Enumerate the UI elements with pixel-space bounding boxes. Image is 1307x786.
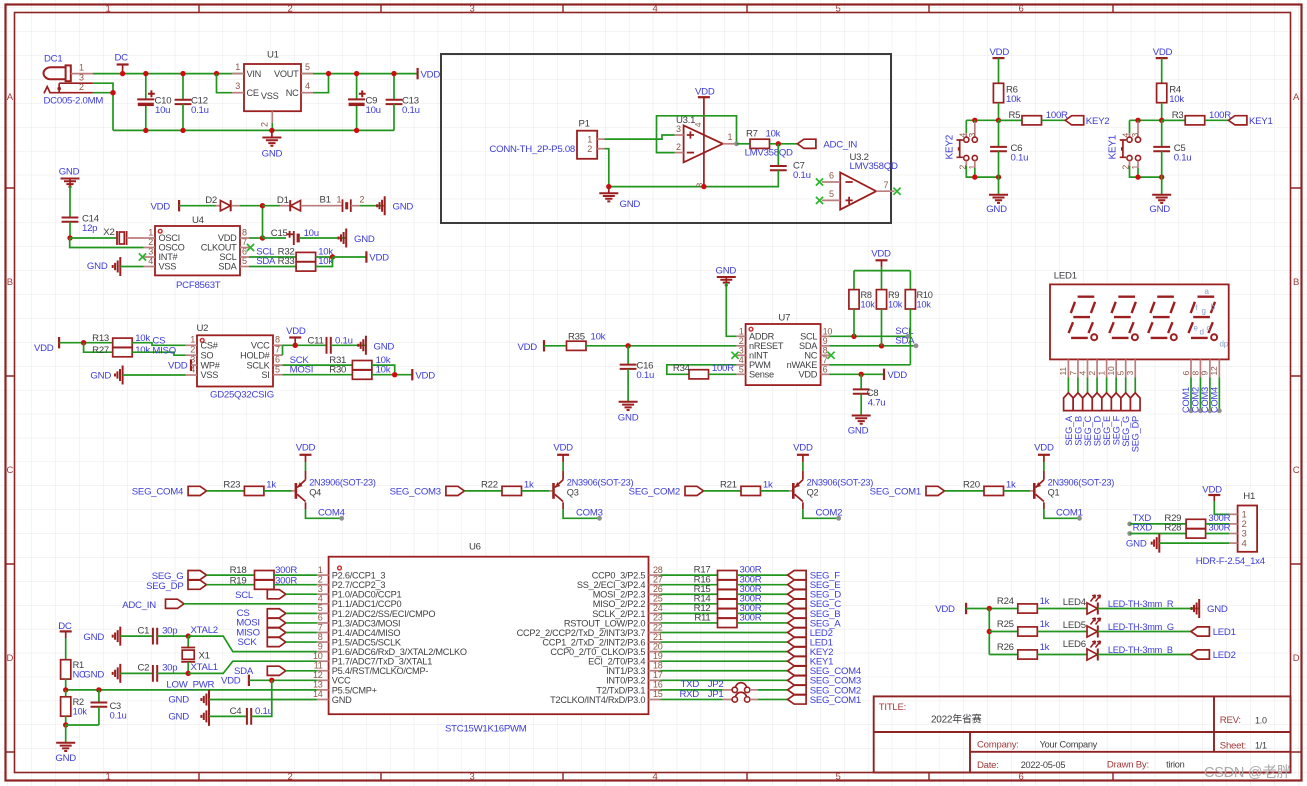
svg-text:1: 1: [79, 63, 84, 73]
resistor R14: [660, 603, 717, 605]
wire JP2 to flag: [750, 689, 758, 691]
svg-text:KEY1: KEY1: [1108, 134, 1119, 159]
svg-text:10k: 10k: [591, 332, 606, 343]
svg-text:Sense: Sense: [749, 370, 774, 380]
capacitor C12: [182, 74, 184, 100]
wire pin18 to flag: [660, 670, 787, 672]
power flag VDD: [417, 68, 419, 79]
U6 pin 27 SS_2/ECI_3/P2.4: [649, 584, 661, 586]
resistor R16: [660, 584, 717, 586]
svg-text:tirion: tirion: [1166, 760, 1185, 770]
svg-text:R1: R1: [73, 660, 84, 670]
svg-text:CCP0_3/P2.5: CCP0_3/P2.5: [592, 571, 646, 581]
svg-text:GND: GND: [374, 341, 395, 352]
svg-text:C1: C1: [138, 625, 150, 636]
wire XTAL2 to pin9: [188, 636, 317, 652]
U6 pin 10 P1.7/ADC7/TxD_3/XTAL1: [317, 660, 329, 662]
svg-text:MISO: MISO: [152, 345, 176, 356]
resistor R3: [1162, 119, 1186, 121]
LED1 pin 9 / net COM3: [1209, 359, 1211, 377]
svg-text:7: 7: [823, 355, 828, 365]
wire ground rail: [113, 129, 394, 131]
svg-text:VOUT: VOUT: [274, 69, 299, 79]
U3.1 pin 2: [675, 152, 684, 154]
wire R10 to nWAKE: [909, 309, 911, 365]
svg-text:C15: C15: [271, 228, 288, 239]
svg-text:300R: 300R: [1208, 523, 1230, 534]
svg-text:6: 6: [318, 613, 323, 623]
LED1 pin 1 / flag SEG_E: [1106, 359, 1108, 377]
svg-text:XTAL1: XTAL1: [191, 662, 218, 673]
svg-text:VDD: VDD: [286, 326, 306, 337]
svg-text:R11: R11: [694, 613, 710, 624]
svg-text:1k: 1k: [1006, 480, 1016, 491]
wire R25 to LED5: [1037, 631, 1087, 633]
wire R7 to node: [770, 143, 798, 145]
resistor R30: [352, 370, 372, 379]
svg-text:5: 5: [739, 364, 744, 374]
transistor Q1: [1033, 483, 1036, 499]
resistor R31: [352, 361, 372, 370]
wire flag to R20: [945, 490, 985, 492]
svg-text:INT0/P3.2: INT0/P3.2: [606, 676, 645, 686]
svg-text:2N3906(SOT-23): 2N3906(SOT-23): [309, 477, 376, 487]
LED1 pin 3 / flag SEG_DP: [1134, 359, 1136, 377]
svg-text:VDD: VDD: [1153, 47, 1173, 58]
LED1 pin 7 / flag SEG_B: [1077, 359, 1079, 377]
wire pullup top rail: [881, 267, 883, 290]
IC U7: [746, 324, 821, 385]
svg-text:WP#: WP#: [201, 360, 221, 370]
svg-text:0.1u: 0.1u: [793, 170, 811, 181]
svg-text:P1.2/ADC2/SS/ECI/CMPO: P1.2/ADC2/SS/ECI/CMPO: [332, 609, 436, 619]
wire to R7: [737, 143, 751, 145]
wire Q3 collector to COM3: [562, 502, 564, 509]
U3.2 pin 5: [822, 199, 840, 201]
svg-text:VDD: VDD: [34, 343, 54, 354]
svg-text:21: 21: [653, 632, 663, 642]
svg-text:C3: C3: [110, 701, 121, 711]
wire VIN rail: [93, 73, 418, 75]
svg-text:10k: 10k: [917, 300, 932, 310]
svg-text:8: 8: [823, 345, 828, 355]
wire C1 to XTAL2 node: [157, 635, 188, 637]
svg-text:16: 16: [653, 680, 663, 690]
U4 pin CLKOUT no-connect: [240, 247, 249, 249]
svg-text:1k: 1k: [1040, 596, 1050, 607]
junction: [606, 184, 611, 189]
svg-text:DC005-2.0MM: DC005-2.0MM: [44, 96, 104, 107]
diode D2: [216, 205, 220, 207]
svg-text:GND: GND: [87, 261, 108, 272]
svg-text:7: 7: [1068, 371, 1078, 376]
resistor R26: [1018, 650, 1038, 659]
svg-text:5: 5: [1116, 371, 1126, 376]
power flag VDD U7: [883, 369, 885, 380]
resistor R10: [905, 290, 915, 309]
wire R26 to LED6: [1037, 654, 1087, 656]
svg-text:23: 23: [653, 613, 663, 623]
svg-text:INT#: INT#: [159, 252, 179, 262]
svg-text:SDA: SDA: [799, 341, 818, 351]
wire R22 to Q3: [522, 490, 550, 492]
resistor R25: [1018, 627, 1038, 636]
svg-text:U6: U6: [469, 542, 481, 553]
svg-text:P1.6/ADC6/RxD_3/XTAL2/MCLKO: P1.6/ADC6/RxD_3/XTAL2/MCLKO: [332, 647, 467, 657]
U6 pin 9 P1.6/ADC6/RxD_3/XTAL2/MCLKO: [317, 651, 329, 653]
svg-text:VDD: VDD: [168, 360, 188, 371]
svg-text:2: 2: [287, 772, 292, 783]
svg-text:1.0: 1.0: [1255, 715, 1267, 725]
svg-text:CCP0_2/T0_CLKO/P3.5: CCP0_2/T0_CLKO/P3.5: [550, 647, 645, 657]
svg-text:8: 8: [275, 335, 280, 345]
LED1 pin 11 / flag SEG_A: [1067, 359, 1069, 377]
svg-text:0.1u: 0.1u: [1011, 152, 1029, 163]
svg-text:R35: R35: [568, 332, 585, 343]
svg-text:VDD: VDD: [871, 249, 891, 260]
svg-text:dp: dp: [1220, 340, 1229, 349]
U6 pin 21 CCP1_2/TxD_2/INT2/P3.6: [649, 641, 661, 643]
svg-text:2: 2: [79, 82, 84, 92]
wire R5 to flag: [1042, 119, 1066, 121]
wire C15 to ground: [300, 237, 346, 239]
LED1 pin 10 / flag SEG_F: [1115, 359, 1117, 377]
svg-text:GD25Q32CSIG: GD25Q32CSIG: [210, 390, 274, 401]
wire pin16 to jumper JP2: [660, 689, 722, 691]
resistor R23: [244, 486, 264, 495]
transistor Q2: [792, 483, 795, 499]
svg-text:20: 20: [653, 641, 663, 651]
svg-text:VDD: VDD: [799, 370, 818, 380]
U7 pin VDD wire: [821, 373, 830, 375]
7-seg digit 2: [1109, 297, 1138, 341]
U6 pin 22 CCP2_2/CCP2/TxD_2/INT3/P3.7: [649, 631, 661, 633]
svg-text:2: 2: [360, 195, 365, 205]
svg-text:6: 6: [1018, 4, 1023, 15]
svg-text:LED5: LED5: [1063, 620, 1086, 631]
svg-text:P2.6/CCP1_3: P2.6/CCP1_3: [332, 571, 386, 581]
crystal X2: [117, 231, 127, 245]
wire R28 to pin3: [1206, 533, 1229, 535]
svg-text:3: 3: [739, 345, 744, 355]
DC1 pin 3: [59, 82, 93, 84]
wire R35 to nRESET: [586, 345, 736, 347]
svg-text:1: 1: [105, 4, 110, 15]
wire R1 to node: [65, 679, 67, 690]
wire pin19 to flag: [660, 660, 787, 662]
net flag KEY2: [1065, 116, 1084, 125]
svg-text:COM2: COM2: [816, 507, 843, 518]
pushbutton KEY2 bottom wires: [965, 161, 967, 166]
svg-text:VDD: VDD: [793, 443, 813, 454]
svg-text:1: 1: [587, 134, 592, 144]
net flag LED1: [788, 637, 807, 646]
svg-text:VCC: VCC: [251, 341, 270, 351]
svg-text:CONN-TH_2P-P5.08: CONN-TH_2P-P5.08: [489, 144, 575, 155]
capacitor C15: [263, 237, 287, 239]
svg-text:B: B: [1293, 277, 1299, 288]
pushbutton KEY2: [965, 120, 967, 133]
svg-text:VDD: VDD: [1202, 485, 1222, 496]
resistor R2: [65, 690, 67, 697]
wire feedback loop: [657, 116, 737, 153]
wire R23 to Q4: [264, 490, 292, 492]
wire pin20 to flag: [660, 651, 787, 653]
capacitor C16: [627, 346, 629, 365]
net flag SEG_B: [788, 609, 807, 618]
svg-text:SDA: SDA: [895, 336, 915, 347]
U6 pin 8 P1.5/ADC5/SCLK: [317, 641, 329, 643]
svg-text:SCL: SCL: [800, 332, 817, 342]
svg-text:Sheet:: Sheet:: [1220, 740, 1246, 751]
wire D2 to node: [232, 205, 241, 207]
svg-text:LED6: LED6: [1063, 639, 1086, 650]
svg-text:LED-TH-3mm_R: LED-TH-3mm_R: [1108, 599, 1174, 609]
resistor R34: [689, 370, 709, 379]
svg-text:10k: 10k: [1169, 94, 1184, 105]
svg-text:VDD: VDD: [553, 443, 573, 454]
svg-text:1: 1: [105, 772, 110, 783]
U4 pin OSCI: [144, 237, 156, 239]
svg-text:22: 22: [653, 622, 663, 632]
svg-text:R18: R18: [230, 565, 247, 576]
svg-text:GND: GND: [620, 199, 641, 210]
capacitor C5: [1161, 120, 1163, 147]
svg-text:4: 4: [958, 133, 968, 138]
net flag SEG_COM3: [788, 676, 807, 685]
svg-text:COM3: COM3: [576, 507, 603, 518]
svg-text:PWM: PWM: [749, 360, 771, 370]
svg-text:3: 3: [469, 4, 474, 15]
P1 pin1 wire: [597, 138, 604, 140]
svg-text:10k: 10k: [888, 300, 903, 310]
svg-text:2: 2: [739, 336, 744, 346]
svg-text:COM4: COM4: [318, 507, 346, 518]
svg-text:6: 6: [829, 171, 834, 181]
svg-text:U2: U2: [197, 323, 209, 334]
svg-text:P1.5/ADC5/SCLK: P1.5/ADC5/SCLK: [332, 637, 402, 647]
svg-text:R5: R5: [1009, 110, 1021, 121]
svg-text:NC: NC: [286, 88, 299, 98]
ground GND B1: [377, 196, 385, 215]
svg-text:VSS: VSS: [261, 91, 279, 101]
svg-text:LED2: LED2: [1213, 650, 1236, 661]
svg-text:P1.4/ADC4/MISO: P1.4/ADC4/MISO: [332, 628, 401, 638]
LED1 pin 5 / flag SEG_G: [1125, 359, 1127, 377]
U6 pin 18 INT1/P3.3: [649, 670, 661, 672]
net flag KEY2: [788, 647, 807, 656]
svg-text:GND: GND: [262, 149, 283, 160]
svg-text:CCP2_2/CCP2/TxD_2/INT3/P3.7: CCP2_2/CCP2/TxD_2/INT3/P3.7: [517, 628, 646, 638]
U3.1 output pin 1: [723, 143, 737, 145]
svg-text:MISO_2/P2.2: MISO_2/P2.2: [593, 599, 646, 609]
svg-text:KEY2: KEY2: [1086, 116, 1110, 127]
frame column numbers: [105, 4, 1023, 783]
svg-text:10: 10: [1106, 366, 1116, 375]
svg-text:SCLK: SCLK: [246, 360, 270, 370]
U1 pin VSS: [271, 111, 273, 123]
svg-text:GND: GND: [168, 712, 189, 723]
svg-text:R33: R33: [278, 256, 295, 267]
DC1 pin 1: [71, 73, 93, 75]
svg-text:2: 2: [587, 144, 592, 154]
power flag VDD diodes: [178, 200, 180, 211]
svg-text:8: 8: [242, 227, 247, 237]
wire flag to R23: [207, 490, 245, 492]
svg-text:R9: R9: [888, 290, 899, 300]
ground GND R2: [65, 725, 67, 743]
svg-text:4: 4: [1242, 538, 1247, 549]
svg-text:B: B: [7, 277, 13, 288]
svg-text:7: 7: [318, 622, 323, 632]
svg-text:R24: R24: [997, 596, 1015, 607]
ground GND C5: [1161, 177, 1163, 195]
capacitor C13: [393, 74, 395, 100]
resistor R15: [660, 593, 717, 595]
svg-text:6: 6: [823, 364, 828, 374]
svg-text:SDA: SDA: [218, 262, 237, 272]
svg-text:LED-TH-3mm_G: LED-TH-3mm_G: [1108, 622, 1174, 632]
svg-text:XTAL2: XTAL2: [191, 625, 218, 636]
svg-text:300R: 300R: [740, 613, 762, 624]
resistor R12: [660, 612, 717, 614]
svg-text:ADDR: ADDR: [749, 332, 775, 342]
svg-text:GND: GND: [716, 266, 737, 277]
svg-text:19: 19: [653, 651, 663, 661]
svg-text:30p: 30p: [162, 663, 177, 674]
wire R8 to SCL: [853, 309, 855, 336]
wire R20 to Q1: [1004, 490, 1031, 492]
svg-text:18: 18: [653, 661, 663, 671]
svg-text:10k: 10k: [861, 300, 876, 310]
pushbutton KEY1: [1129, 120, 1131, 133]
U1 pin NC wire: [301, 92, 313, 94]
svg-text:VDD: VDD: [990, 47, 1010, 58]
resistor R29: [1186, 519, 1206, 528]
svg-text:9: 9: [823, 336, 828, 346]
U4 pin VDD wire: [240, 237, 249, 239]
power flag VDD R4: [1156, 57, 1168, 59]
svg-text:nWAKE: nWAKE: [787, 360, 818, 370]
U6 pin 28 CCP0_3/P2.5: [649, 574, 661, 576]
svg-text:GND: GND: [168, 695, 189, 706]
LED1 pin 12 / net COM4: [1218, 359, 1220, 377]
svg-text:GND: GND: [55, 753, 76, 764]
svg-text:OSCO: OSCO: [159, 243, 185, 253]
svg-text:3: 3: [318, 584, 323, 594]
ground GND U1: [271, 130, 273, 137]
U2 pin SI to R30: [273, 374, 283, 376]
svg-text:C: C: [6, 465, 13, 476]
svg-text:GND: GND: [986, 204, 1007, 215]
pushbutton KEY1 bottom wires: [1129, 161, 1131, 166]
U6 pin 23 RSTOUT_LOW/P2.0: [649, 622, 661, 624]
svg-text:R34: R34: [673, 363, 691, 374]
svg-text:SEG_DP: SEG_DP: [1131, 416, 1141, 452]
svg-text:STC15W1K16PWM: STC15W1K16PWM: [445, 724, 527, 735]
svg-text:X2: X2: [103, 227, 114, 238]
svg-text:3: 3: [469, 772, 474, 783]
U6 pin 12 VCC: [317, 679, 329, 681]
ground GND C15: [339, 229, 347, 248]
svg-text:B1: B1: [320, 195, 331, 206]
svg-text:GND: GND: [848, 426, 869, 437]
svg-text:P1.1/ADC1/CCP0: P1.1/ADC1/CCP0: [332, 599, 402, 609]
power flag VDD U3.1: [698, 96, 710, 98]
svg-text:100R: 100R: [712, 363, 734, 374]
svg-text:11: 11: [1058, 367, 1068, 376]
U6 pin 3 P1.0/ADC0/CCP1: [317, 593, 329, 595]
svg-text:100R: 100R: [1046, 110, 1068, 121]
battery B1: [301, 205, 343, 207]
wire LED4 to ground: [1098, 608, 1199, 610]
U7 pin SCL wire: [821, 335, 830, 337]
svg-text:1k: 1k: [763, 480, 773, 491]
U6 pin 16 T2/TxD/P3.1: [649, 689, 661, 691]
svg-text:0.1u: 0.1u: [1174, 152, 1192, 163]
net flag SEG_COM2: [788, 685, 807, 694]
svg-text:LED4: LED4: [1063, 597, 1087, 608]
segment letter labels: [1194, 287, 1229, 349]
wire VDD to pin1: [1214, 501, 1229, 514]
svg-text:Q2: Q2: [807, 487, 819, 497]
resistor R11: [660, 622, 717, 624]
U6 pin 2 P2.7/CCP2_3: [317, 584, 329, 586]
svg-text:8: 8: [318, 632, 323, 642]
net flag LED2: [788, 628, 807, 637]
svg-text:10k: 10k: [1006, 94, 1021, 105]
svg-text:GND: GND: [83, 670, 104, 681]
U2 pin SCLK to R31: [273, 364, 283, 366]
wire R29 to pin2: [1206, 523, 1229, 525]
net flag SEG_A: [788, 618, 807, 627]
svg-text:ADC_IN: ADC_IN: [122, 600, 156, 611]
svg-text:R7: R7: [746, 129, 758, 140]
svg-text:KEY1: KEY1: [1249, 116, 1273, 127]
svg-text:RSTOUT_LOW/P2.0: RSTOUT_LOW/P2.0: [564, 618, 645, 628]
svg-text:27: 27: [653, 574, 663, 584]
svg-text:2: 2: [676, 142, 681, 152]
svg-text:VDD: VDD: [1034, 443, 1054, 454]
svg-text:R13: R13: [92, 333, 109, 344]
svg-text:1: 1: [1096, 371, 1106, 376]
svg-text:Date:: Date:: [977, 760, 999, 771]
ground GND C11: [358, 336, 366, 355]
svg-text:VDD: VDD: [887, 370, 907, 381]
svg-text:4: 4: [318, 594, 323, 604]
svg-text:MOSI: MOSI: [290, 364, 314, 375]
connector P1: [577, 131, 597, 159]
wire Q2 collector to COM2: [802, 502, 804, 509]
wire C11 to ground: [331, 344, 366, 346]
svg-text:SEG_D: SEG_D: [1092, 415, 1102, 446]
P1 pin2 wire: [597, 148, 604, 150]
svg-text:10k: 10k: [135, 345, 150, 356]
jumper JP2: [735, 683, 746, 689]
U3.1 pin 3: [675, 134, 684, 136]
power flag VDD R13: [58, 337, 60, 348]
LED1 pin 4 / flag SEG_C: [1087, 359, 1089, 377]
svg-text:COM1: COM1: [1056, 507, 1083, 518]
svg-text:A: A: [7, 92, 14, 103]
wire key node row: [966, 119, 1022, 121]
resistor R1: [61, 660, 71, 679]
svg-text:R8: R8: [861, 290, 872, 300]
svg-text:NC: NC: [804, 351, 817, 361]
svg-text:1/1: 1/1: [1255, 740, 1267, 750]
wire C3 to ground node: [66, 724, 99, 726]
net flag LED1: [1191, 627, 1210, 636]
